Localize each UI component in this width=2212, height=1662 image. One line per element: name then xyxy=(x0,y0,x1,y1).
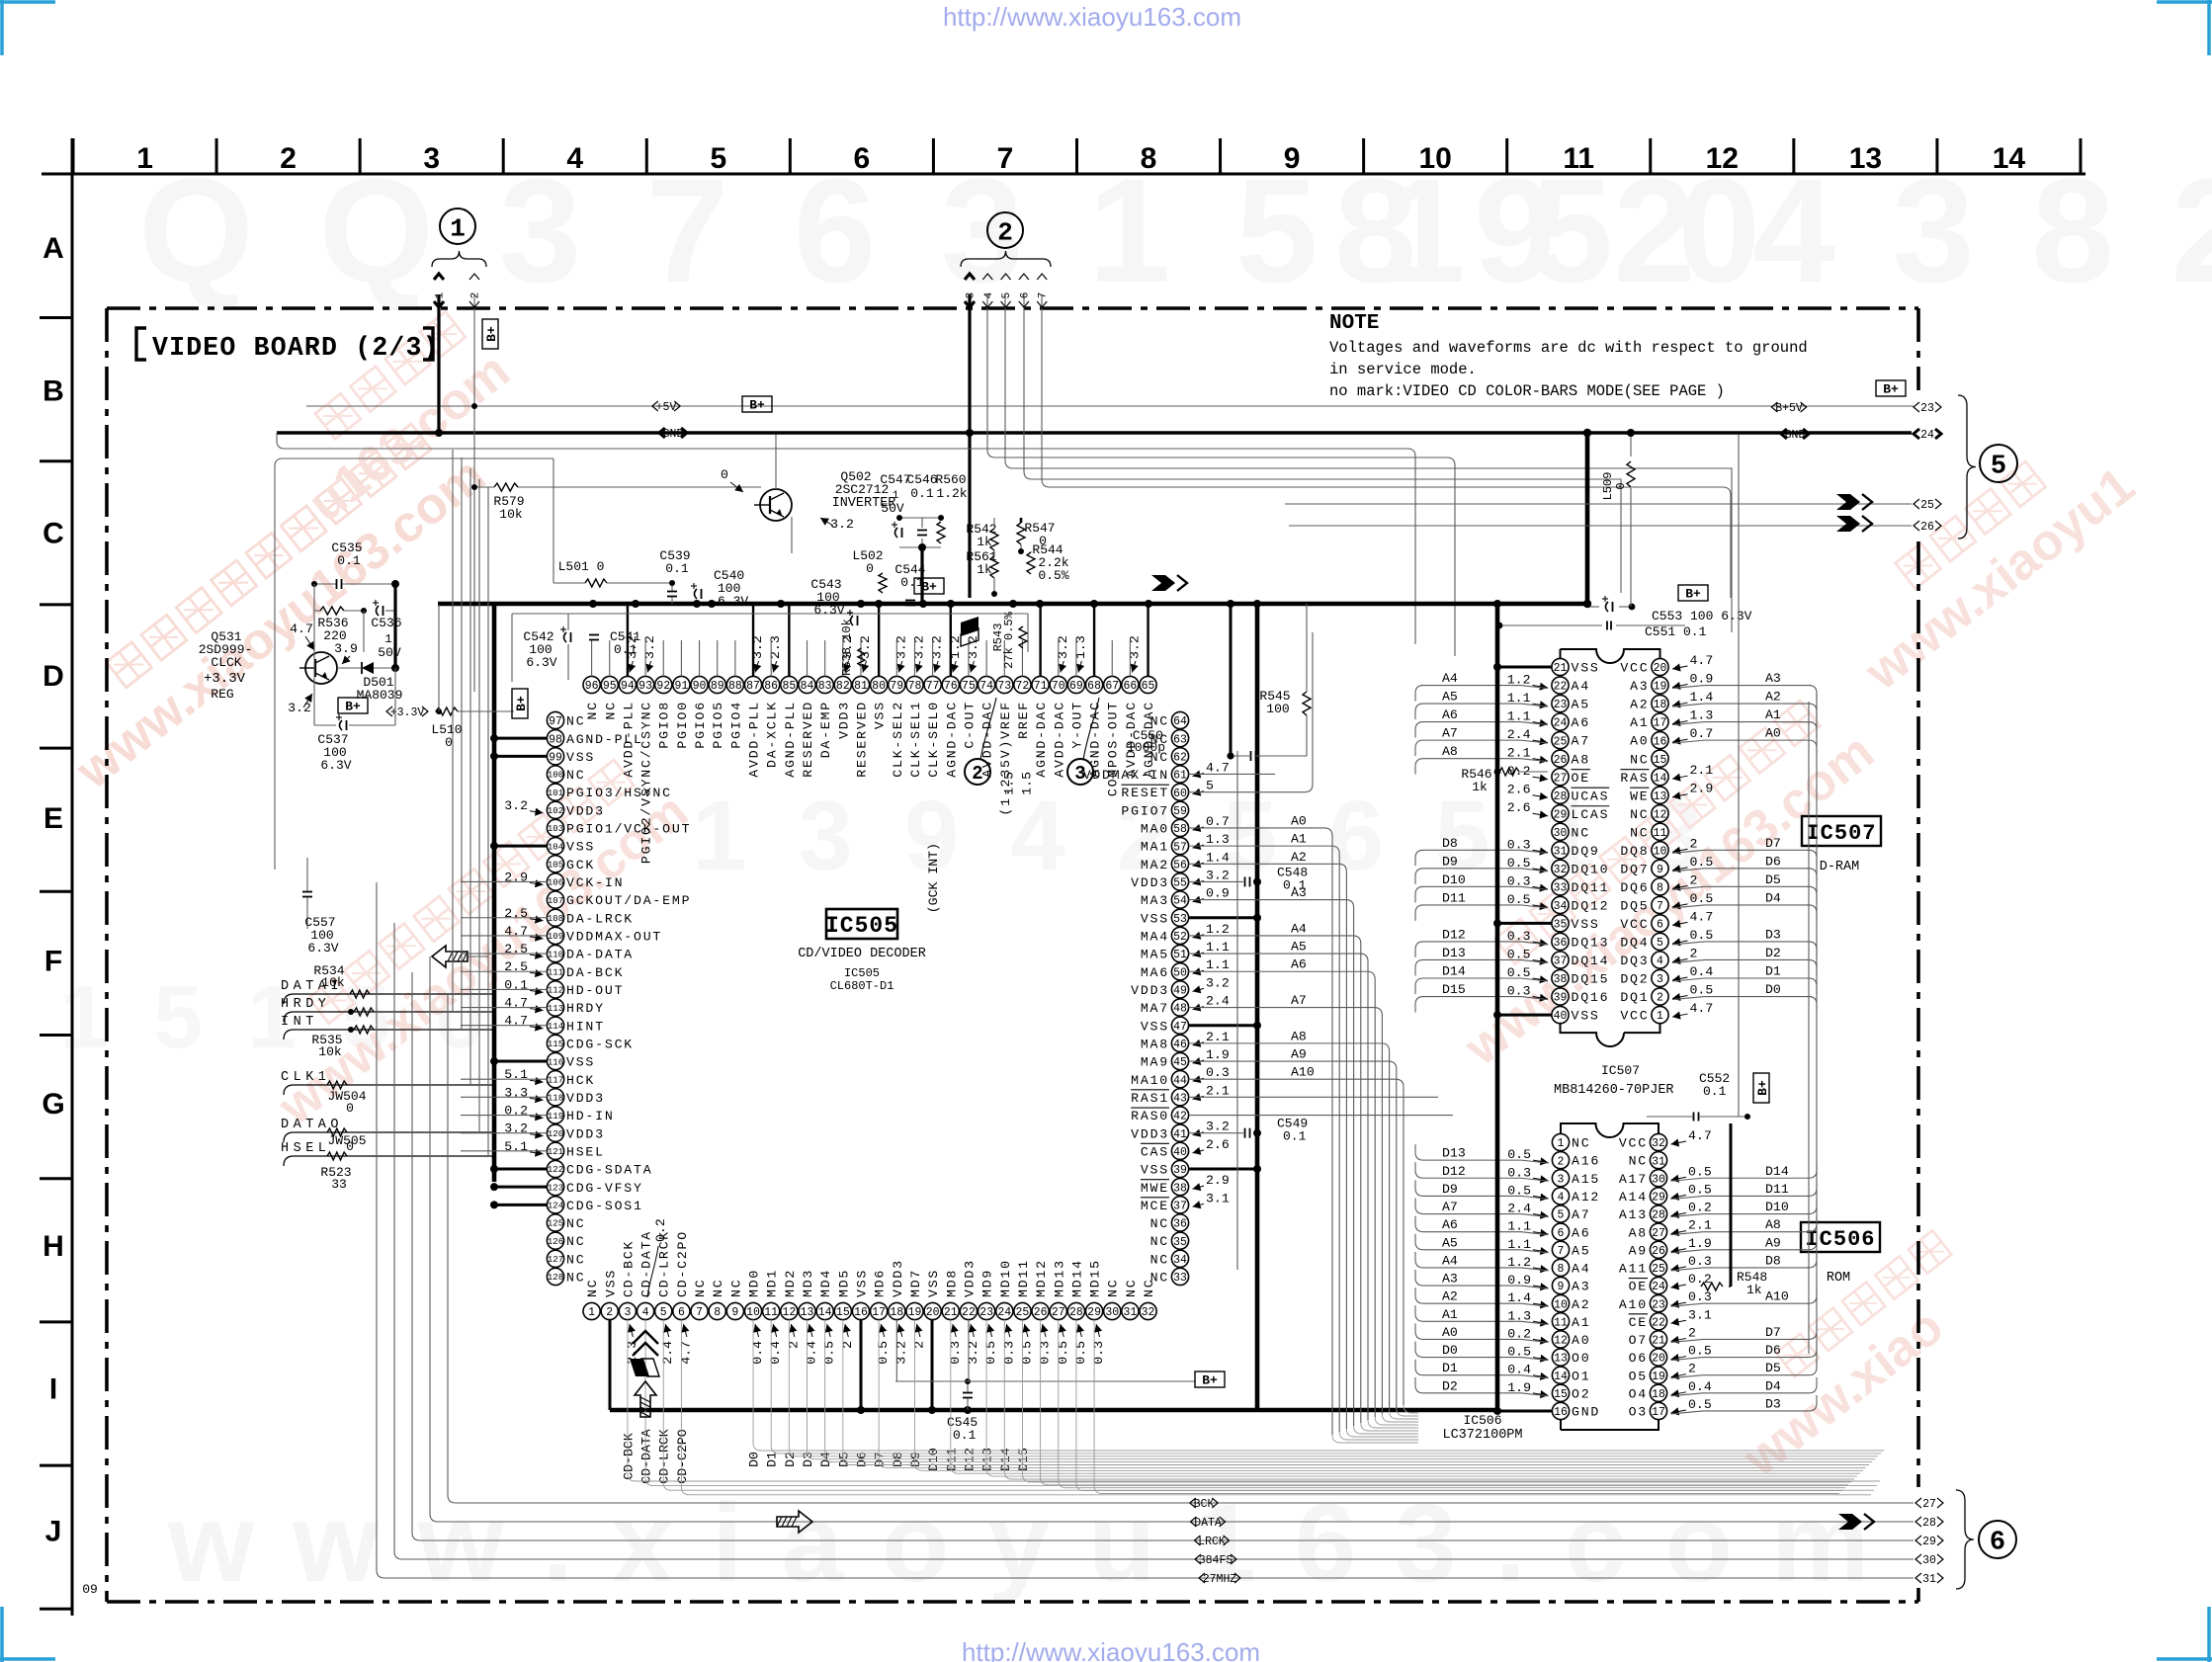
svg-text:0.5: 0.5 xyxy=(1688,1344,1712,1359)
svg-text:1.2k: 1.2k xyxy=(936,486,967,501)
transistor Q531 xyxy=(305,652,337,684)
svg-text:51: 51 xyxy=(1173,949,1187,961)
svg-text:OE: OE xyxy=(1629,1280,1648,1294)
svg-text:VSS: VSS xyxy=(873,701,888,729)
svg-text:50V: 50V xyxy=(881,501,904,516)
connector group 2 (pins 3..7) with circled 2 xyxy=(987,212,1023,248)
svg-text:CD-DATA: CD-DATA xyxy=(639,1230,654,1297)
svg-text:D0: D0 xyxy=(747,1452,762,1467)
svg-text:29: 29 xyxy=(1652,1192,1665,1205)
svg-text:108: 108 xyxy=(548,914,563,924)
svg-text:B+: B+ xyxy=(1202,1373,1218,1388)
svg-text:5: 5 xyxy=(1657,937,1663,950)
thin rect around chip (inner rail) xyxy=(512,613,1028,615)
svg-text:D5: D5 xyxy=(1765,1361,1781,1375)
svg-text:D5: D5 xyxy=(1765,873,1781,887)
svg-text:27k 0.5%: 27k 0.5% xyxy=(1002,611,1016,668)
svg-text:D11: D11 xyxy=(1765,1182,1789,1197)
svg-text:MA7: MA7 xyxy=(1141,1001,1169,1016)
svg-text:HRDY: HRDY xyxy=(281,997,330,1012)
bottom bus tags xyxy=(1190,1498,1196,1508)
leader curves from circled numbers to pins xyxy=(980,698,996,760)
svg-text:4: 4 xyxy=(1657,956,1663,968)
svg-text:VDD3: VDD3 xyxy=(566,803,605,818)
svg-text:C546: C546 xyxy=(906,472,937,487)
svg-text:45: 45 xyxy=(1173,1056,1187,1069)
svg-text:O4: O4 xyxy=(1629,1386,1648,1401)
svg-text:A7: A7 xyxy=(1572,734,1590,749)
svg-text:VSS: VSS xyxy=(1141,911,1169,926)
svg-text:MA4: MA4 xyxy=(1141,930,1169,945)
svg-text:2.3: 2.3 xyxy=(768,635,783,659)
svg-text:4.7: 4.7 xyxy=(1206,760,1230,775)
svg-text:36: 36 xyxy=(1554,937,1568,950)
svg-text:A9: A9 xyxy=(1291,1047,1307,1062)
svg-text:0: 0 xyxy=(346,1139,354,1154)
B+ box mid xyxy=(914,578,944,594)
ff arrow right mid xyxy=(1151,575,1187,591)
svg-text:0.1: 0.1 xyxy=(504,977,528,992)
svg-text:1.4: 1.4 xyxy=(1690,690,1714,705)
svg-text:23: 23 xyxy=(1554,699,1568,711)
svg-text:CD-DATA: CD-DATA xyxy=(639,1429,654,1483)
IC505 pins left column 97..128 xyxy=(504,711,691,1285)
svg-text:70: 70 xyxy=(1052,680,1065,693)
svg-text:MD6: MD6 xyxy=(873,1269,888,1297)
IC505 bottom bus labels CD-BCK etc xyxy=(621,1429,1031,1483)
svg-text:VCK-IN: VCK-IN xyxy=(566,875,624,890)
svg-text:100: 100 xyxy=(548,771,563,781)
svg-text:3.2: 3.2 xyxy=(1206,1120,1230,1134)
svg-text:0.3: 0.3 xyxy=(1001,1341,1016,1365)
svg-text:54: 54 xyxy=(1173,895,1187,908)
svg-text:41: 41 xyxy=(1173,1128,1187,1141)
svg-text:14: 14 xyxy=(1993,142,2026,175)
svg-text:MA9: MA9 xyxy=(1141,1055,1169,1070)
svg-text:A2: A2 xyxy=(1630,698,1649,712)
svg-text:VSS: VSS xyxy=(1141,1163,1169,1178)
capacitor C536 xyxy=(377,606,380,616)
svg-text:D15: D15 xyxy=(1442,982,1466,997)
svg-text:CD-BCK: CD-BCK xyxy=(621,1240,636,1297)
svg-text:MD3: MD3 xyxy=(801,1269,815,1297)
svg-text:19: 19 xyxy=(908,1306,922,1319)
svg-text:56: 56 xyxy=(1173,859,1187,872)
svg-text:0.5: 0.5 xyxy=(1073,1341,1088,1365)
svg-text:A10: A10 xyxy=(1765,1289,1789,1304)
IC507 chip outline xyxy=(1561,649,1660,1033)
svg-text:O7: O7 xyxy=(1629,1333,1648,1348)
svg-text:104: 104 xyxy=(548,842,563,852)
svg-text:w w w . x i a o y u 1 6 3 . c: w w w . x i a o y u 1 6 3 . c o m xyxy=(167,1481,1873,1605)
svg-text:A1: A1 xyxy=(1572,1315,1590,1330)
svg-text:1: 1 xyxy=(136,142,153,175)
corner mark bottom-left xyxy=(0,1607,4,1662)
svg-text:D2: D2 xyxy=(1765,946,1781,960)
svg-text:0.5: 0.5 xyxy=(1690,928,1714,943)
svg-text:D1: D1 xyxy=(1765,964,1781,979)
svg-text:28: 28 xyxy=(1069,1306,1083,1319)
svg-text:0.4: 0.4 xyxy=(1690,964,1714,979)
svg-text:D2: D2 xyxy=(783,1452,798,1467)
B+ label near +5V xyxy=(742,396,772,412)
svg-text:119: 119 xyxy=(548,1112,563,1122)
svg-text:12: 12 xyxy=(1706,142,1739,175)
svg-text:A6: A6 xyxy=(1442,707,1458,722)
right bus vertical rails xyxy=(1816,692,1818,1364)
svg-text:MD12: MD12 xyxy=(1034,1259,1049,1297)
svg-text:8: 8 xyxy=(714,1306,721,1319)
svg-text:33: 33 xyxy=(331,1177,347,1192)
svg-text:27: 27 xyxy=(1554,772,1568,785)
watermark: pink diagonal 3 xyxy=(1424,685,1885,1077)
svg-text:98: 98 xyxy=(549,733,562,746)
svg-text:29: 29 xyxy=(1087,1306,1101,1319)
svg-text:D9: D9 xyxy=(1442,854,1458,869)
svg-text:LRCK: LRCK xyxy=(1198,1536,1226,1548)
svg-text:O6: O6 xyxy=(1629,1351,1648,1366)
svg-text:A5: A5 xyxy=(1442,690,1458,705)
ground bus around IC505 (thick loop) xyxy=(494,602,1587,607)
svg-text:C-OUT: C-OUT xyxy=(962,701,977,749)
left long vertical rails xyxy=(447,994,449,1495)
svg-text:18: 18 xyxy=(1654,699,1667,711)
svg-text:CDG-SDATA: CDG-SDATA xyxy=(566,1163,652,1178)
svg-text:NC: NC xyxy=(693,1279,708,1297)
svg-text:IC507: IC507 xyxy=(1601,1063,1640,1078)
svg-text:MA0: MA0 xyxy=(1141,822,1169,837)
svg-text:28: 28 xyxy=(1922,1517,1936,1530)
svg-text:DQ2: DQ2 xyxy=(1620,972,1649,987)
svg-text:13: 13 xyxy=(1654,790,1667,803)
svg-text:106: 106 xyxy=(548,878,563,888)
svg-text:B+: B+ xyxy=(484,326,499,342)
svg-text:72: 72 xyxy=(1016,680,1030,693)
svg-text:RESERVED: RESERVED xyxy=(855,701,870,778)
svg-text:DA-XCLK: DA-XCLK xyxy=(765,701,780,768)
svg-text:4: 4 xyxy=(983,291,995,298)
svg-text:30: 30 xyxy=(1105,1306,1119,1319)
svg-text:89: 89 xyxy=(711,680,724,693)
svg-text:14: 14 xyxy=(1554,1371,1568,1383)
svg-text:PGIO8: PGIO8 xyxy=(657,701,672,749)
svg-text:1.5: 1.5 xyxy=(1001,772,1016,795)
top rails horizontal xyxy=(275,453,890,466)
svg-text:2.6: 2.6 xyxy=(1507,800,1531,815)
svg-text:NC: NC xyxy=(566,1271,585,1286)
svg-text:0.1: 0.1 xyxy=(910,486,934,501)
svg-text:A8: A8 xyxy=(1629,1225,1648,1240)
svg-text:61: 61 xyxy=(1173,770,1187,783)
svg-text:36: 36 xyxy=(1173,1218,1187,1231)
svg-text:J: J xyxy=(45,1516,62,1548)
svg-text:0.2: 0.2 xyxy=(653,1218,668,1242)
svg-text:6.3V: 6.3V xyxy=(718,594,748,609)
transistor Q502 INVERTER xyxy=(760,489,792,521)
svg-text:2: 2 xyxy=(1688,1325,1696,1340)
svg-text:12: 12 xyxy=(1554,1335,1568,1348)
thick VSS stubs right pins 53/47/39 xyxy=(1189,916,1257,919)
svg-text:113: 113 xyxy=(548,1004,563,1014)
svg-text:112: 112 xyxy=(548,986,563,996)
svg-text:0.3: 0.3 xyxy=(1688,1254,1712,1269)
svg-text:L509: L509 xyxy=(1601,472,1615,501)
svg-text:O3: O3 xyxy=(1629,1405,1648,1420)
svg-text:32: 32 xyxy=(1554,864,1568,876)
junction dots on top bus xyxy=(589,600,597,608)
svg-text:124: 124 xyxy=(548,1202,563,1211)
svg-text:7: 7 xyxy=(1558,1245,1565,1258)
svg-text:NC: NC xyxy=(566,1234,585,1249)
board border top xyxy=(107,306,1918,310)
svg-text:AVDD-DAC: AVDD-DAC xyxy=(1052,701,1066,778)
svg-text:NC: NC xyxy=(585,701,600,719)
svg-text:+3.3V: +3.3V xyxy=(204,671,246,687)
svg-text:RAS: RAS xyxy=(1620,771,1649,786)
IC505 pins bottom row 1..32 xyxy=(583,1230,1156,1365)
svg-text:0.5: 0.5 xyxy=(1056,1341,1070,1365)
svg-text:NC: NC xyxy=(1630,752,1649,767)
svg-text:10: 10 xyxy=(1654,845,1667,858)
svg-text:8: 8 xyxy=(1657,882,1663,895)
IC506 pins left 1..16 xyxy=(1442,1133,1600,1419)
svg-text:7: 7 xyxy=(997,142,1014,175)
svg-text:3.2: 3.2 xyxy=(504,798,528,813)
svg-text:DQ16: DQ16 xyxy=(1572,990,1610,1005)
svg-text:NC: NC xyxy=(585,1279,600,1297)
vertical wires left cluster xyxy=(313,584,315,725)
svg-text:55: 55 xyxy=(1173,877,1187,890)
svg-text:102: 102 xyxy=(548,806,563,816)
svg-text:94: 94 xyxy=(621,680,635,693)
svg-text:2: 2 xyxy=(280,142,297,175)
svg-text:31: 31 xyxy=(1652,1155,1665,1168)
svg-text:NC: NC xyxy=(1124,1279,1139,1297)
svg-text:B+: B+ xyxy=(514,696,529,711)
svg-text:8: 8 xyxy=(1558,1263,1565,1276)
svg-text:RREF: RREF xyxy=(1016,701,1031,739)
svg-text:D2: D2 xyxy=(1442,1378,1458,1393)
svg-text:MCE: MCE xyxy=(1141,1199,1169,1213)
svg-text:VSS: VSS xyxy=(1572,917,1600,932)
svg-text:F: F xyxy=(44,946,62,978)
svg-text:30: 30 xyxy=(1652,1173,1665,1186)
bottom data bus D0-D15 rails xyxy=(753,1320,1884,1451)
svg-text:MD0: MD0 xyxy=(747,1269,762,1297)
svg-text:DQ11: DQ11 xyxy=(1572,880,1610,895)
svg-text:MB814260-70PJER: MB814260-70PJER xyxy=(1554,1083,1674,1098)
svg-text:19: 19 xyxy=(1652,1371,1665,1383)
svg-text:NC: NC xyxy=(1106,1279,1121,1297)
bus rail 3 xyxy=(1005,460,1732,632)
svg-text:A6: A6 xyxy=(1572,715,1590,730)
svg-text:11: 11 xyxy=(764,1306,778,1319)
watermark: pink diagonal 1 xyxy=(36,408,496,800)
svg-text:22: 22 xyxy=(1652,1316,1665,1329)
svg-text:4.7: 4.7 xyxy=(1690,1001,1714,1016)
connector 3 drop wire (thick) xyxy=(968,294,971,598)
svg-text:28: 28 xyxy=(1652,1209,1665,1222)
svg-text:OE: OE xyxy=(1572,771,1590,786)
wire conn7 to right xyxy=(1042,294,1731,598)
circled 3 internal xyxy=(1067,759,1093,785)
svg-text:69: 69 xyxy=(1069,680,1083,693)
thick bus top segment from x=443 xyxy=(438,602,494,607)
svg-text:30: 30 xyxy=(1554,827,1568,840)
wire pin22 VDD3 down to C545 xyxy=(968,1320,970,1381)
capacitor C537 xyxy=(340,720,343,730)
svg-text:49: 49 xyxy=(1173,985,1187,998)
svg-text:DA-BCK: DA-BCK xyxy=(566,965,624,980)
svg-text:D6: D6 xyxy=(1765,1343,1781,1358)
svg-text:3: 3 xyxy=(1657,973,1663,986)
svg-text:65: 65 xyxy=(1142,680,1155,693)
svg-text:5: 5 xyxy=(1001,292,1013,299)
svg-text:120: 120 xyxy=(548,1129,563,1139)
svg-text:2.5: 2.5 xyxy=(504,942,528,956)
svg-text:GND: GND xyxy=(1572,1405,1600,1420)
svg-text:AVDD-PLL: AVDD-PLL xyxy=(747,701,762,778)
svg-text:PGIO0: PGIO0 xyxy=(675,701,690,749)
svg-text:20: 20 xyxy=(1654,662,1667,675)
watermark: pink diagonal 5 xyxy=(1705,1230,1995,1488)
svg-text:CLK-SEL1: CLK-SEL1 xyxy=(908,701,923,778)
svg-text:27: 27 xyxy=(1922,1498,1936,1511)
svg-text:39: 39 xyxy=(1173,1164,1187,1177)
svg-text:21: 21 xyxy=(1652,1335,1665,1348)
svg-text:10k: 10k xyxy=(499,507,523,522)
svg-text:1: 1 xyxy=(588,1306,595,1319)
svg-text:BCK: BCK xyxy=(1194,1498,1215,1511)
svg-text:VIDEO BOARD (2/3): VIDEO BOARD (2/3) xyxy=(152,333,440,363)
svg-text:5.1: 5.1 xyxy=(504,1139,528,1154)
svg-text:2.4: 2.4 xyxy=(1206,994,1230,1009)
vertical rail x=1759 xyxy=(1738,435,1740,1117)
svg-text:MD5: MD5 xyxy=(836,1269,851,1297)
IC505 pins top row 96..65 xyxy=(583,635,1156,864)
svg-text:6.3V: 6.3V xyxy=(307,941,338,956)
svg-text:GND: GND xyxy=(663,428,684,441)
signal stub DATAI with resistor R534 xyxy=(284,994,494,1004)
svg-text:IC505: IC505 xyxy=(825,913,898,939)
signal stub DATAO xyxy=(284,1132,494,1142)
svg-text:31: 31 xyxy=(1123,1306,1137,1319)
svg-text:4.7: 4.7 xyxy=(504,996,528,1011)
svg-text:NC: NC xyxy=(1150,1234,1169,1249)
svg-text:AGND-PLL: AGND-PLL xyxy=(566,732,643,747)
B+ box above IC507 xyxy=(1678,585,1708,601)
svg-text:50: 50 xyxy=(1173,966,1187,979)
watermark: pink diagonal 6 xyxy=(269,304,521,534)
svg-text:D-RAM: D-RAM xyxy=(1820,860,1860,874)
svg-text:28: 28 xyxy=(1554,790,1568,803)
svg-text:MD10: MD10 xyxy=(998,1259,1013,1297)
svg-text:3: 3 xyxy=(966,292,978,299)
svg-text:3.2: 3.2 xyxy=(288,701,311,715)
svg-text:0.5: 0.5 xyxy=(1690,855,1714,870)
IC507 pins right 20..1 xyxy=(1620,653,1781,1024)
svg-text:25: 25 xyxy=(1652,1263,1665,1276)
svg-text:115: 115 xyxy=(548,1039,563,1049)
svg-text:HD-OUT: HD-OUT xyxy=(566,983,624,998)
svg-text:3.2: 3.2 xyxy=(642,635,657,659)
svg-text:20: 20 xyxy=(1652,1353,1665,1366)
svg-text:R560: R560 xyxy=(935,472,966,487)
svg-text:Voltages and waveforms are dc: Voltages and waveforms are dc with respe… xyxy=(1329,339,1808,357)
svg-text:A9: A9 xyxy=(1629,1243,1648,1258)
svg-text:A11: A11 xyxy=(1619,1262,1648,1277)
svg-text:0.5%: 0.5% xyxy=(1038,568,1068,583)
svg-text:7: 7 xyxy=(1657,900,1663,913)
svg-text:53: 53 xyxy=(1173,913,1187,926)
svg-text:CD-BCK: CD-BCK xyxy=(621,1433,636,1480)
misc vertical thin wires top xyxy=(553,458,554,583)
thick line right of IC506 (to R548) xyxy=(1730,1123,1733,1287)
svg-text:2.1: 2.1 xyxy=(1690,763,1714,778)
svg-text:0.7: 0.7 xyxy=(1206,814,1230,829)
svg-text:2.6: 2.6 xyxy=(1507,783,1531,797)
svg-text:MD9: MD9 xyxy=(980,1269,995,1297)
svg-text:CL680T-D1: CL680T-D1 xyxy=(830,979,894,993)
svg-text:DQ3: DQ3 xyxy=(1620,954,1649,968)
junction dots on signal stubs xyxy=(348,1009,354,1015)
thick branch from GND rail down at x=1606 xyxy=(1585,433,1590,604)
svg-text:2.1: 2.1 xyxy=(1206,1030,1230,1044)
svg-text:116: 116 xyxy=(548,1057,563,1067)
svg-text:CD/VIDEO DECODER: CD/VIDEO DECODER xyxy=(798,947,926,961)
svg-text:VCC: VCC xyxy=(1619,1136,1648,1151)
svg-text:R538 10k: R538 10k xyxy=(840,619,854,676)
svg-text:6: 6 xyxy=(678,1306,685,1319)
svg-text:0: 0 xyxy=(445,735,453,750)
svg-text:0.4: 0.4 xyxy=(768,1341,783,1365)
svg-text:114: 114 xyxy=(548,1022,563,1032)
svg-text:107: 107 xyxy=(548,896,563,906)
svg-text:A4: A4 xyxy=(1291,921,1307,936)
svg-text:D14: D14 xyxy=(1765,1164,1789,1179)
svg-text:0.1: 0.1 xyxy=(1703,1084,1727,1099)
svg-text:4.7: 4.7 xyxy=(1690,653,1714,668)
svg-text:CLK-SEL2: CLK-SEL2 xyxy=(891,701,905,778)
svg-text:2.9: 2.9 xyxy=(1206,1173,1230,1188)
svg-text:CLK-SEL0: CLK-SEL0 xyxy=(926,701,941,778)
svg-text:LCAS: LCAS xyxy=(1572,807,1610,822)
svg-text:PGIO5: PGIO5 xyxy=(711,701,725,749)
svg-text:DATA: DATA xyxy=(1194,1517,1222,1530)
svg-text:A7: A7 xyxy=(1572,1207,1590,1222)
svg-text:0.4: 0.4 xyxy=(750,1341,765,1365)
svg-text:VSS: VSS xyxy=(1572,1009,1600,1024)
svg-text:37: 37 xyxy=(1554,956,1568,968)
svg-text:2.1: 2.1 xyxy=(1206,1083,1230,1098)
svg-text:no mark:VIDEO CD COLOR-BARS MO: no mark:VIDEO CD COLOR-BARS MODE(SEE PAG… xyxy=(1329,382,1725,400)
svg-text:17: 17 xyxy=(1654,717,1667,730)
svg-text:DQ5: DQ5 xyxy=(1620,898,1649,913)
svg-text:C551 0.1: C551 0.1 xyxy=(1645,624,1707,639)
svg-text:74: 74 xyxy=(979,680,993,693)
svg-text:21: 21 xyxy=(1554,662,1568,675)
capacitor C557 xyxy=(302,891,312,893)
capacitor C545 xyxy=(963,1392,973,1394)
svg-text:CDG-SCK: CDG-SCK xyxy=(566,1037,634,1051)
svg-text:CE: CE xyxy=(1629,1315,1648,1330)
svg-text:109: 109 xyxy=(548,932,563,942)
svg-text:UCAS: UCAS xyxy=(1572,789,1610,803)
svg-text:1k: 1k xyxy=(1746,1283,1762,1297)
svg-text:0.5: 0.5 xyxy=(1688,1164,1712,1179)
svg-text:(GCK INT): (GCK INT) xyxy=(926,843,941,913)
wire pin18 VDD3 down to B+ rail xyxy=(895,1320,897,1381)
